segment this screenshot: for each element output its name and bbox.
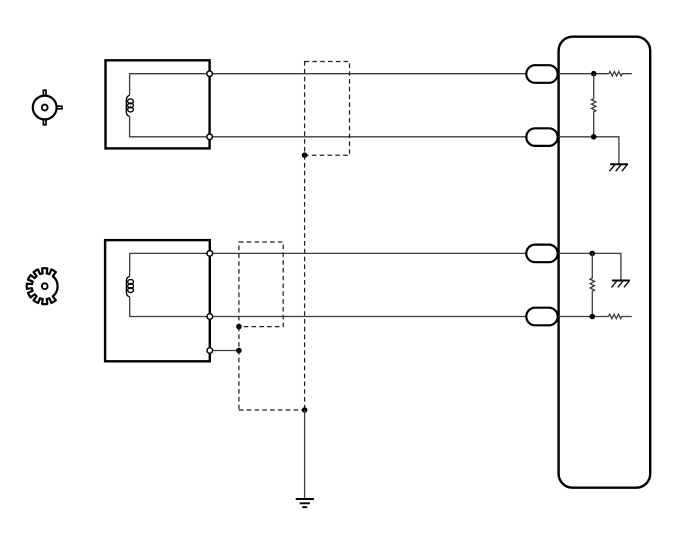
junction: CMP shield drain <box>302 152 308 158</box>
pin: crank sensor terminal 2 <box>207 314 213 320</box>
wire: shield ground lead <box>304 410 306 498</box>
wire: cam coil bottom lead <box>130 117 210 137</box>
wire: ECM internal CKP- <box>559 316 609 318</box>
resistor: CKP series (horizontal) <box>609 314 632 318</box>
chassis ground: CKP channel <box>612 281 630 288</box>
junction: CMP- node <box>591 134 597 140</box>
shield (dashed) around CKP wire pair <box>239 242 283 327</box>
connector terminal: CMP+ <box>526 65 557 83</box>
pin: crank sensor terminal 1 <box>207 251 213 257</box>
wire: crank coil bottom lead <box>130 297 210 317</box>
junction: CMP+ node <box>591 71 597 77</box>
ECM (engine control module) outline <box>559 37 651 488</box>
junction: common shield ground node <box>302 407 308 413</box>
shield drain (dashed) down from CKP shield <box>238 327 240 410</box>
inductor (cam sensor pickup coil) <box>126 95 133 116</box>
connector terminal: CKP- <box>526 308 557 326</box>
resistor: CMP bias (vertical) <box>592 74 596 137</box>
crankshaft position sensor icon (toothed wheel) <box>27 268 58 304</box>
junction: shield pin to drain <box>236 348 242 354</box>
shield drain (dashed) down from CMP shield <box>304 155 306 410</box>
inductor (crank sensor pickup coil) <box>126 276 133 297</box>
pin: cam sensor terminal 1 <box>207 71 213 77</box>
camshaft sensor body box <box>106 60 210 148</box>
wire: ECM internal CMP- to ground <box>559 137 619 164</box>
junction: CKP- node <box>590 314 596 320</box>
wire: crank coil top lead <box>130 253 210 276</box>
crankshaft sensor body box <box>105 240 210 361</box>
shield (dashed) around CMP wire pair <box>305 62 350 156</box>
connector terminal: CKP+ <box>526 245 557 263</box>
wire: CKP signal + (top) <box>210 252 527 254</box>
pin: crank sensor shield terminal <box>207 348 213 354</box>
wire: cam coil top lead <box>130 74 210 96</box>
wire: ECM internal CKP+ to ground <box>559 253 621 279</box>
earth ground symbol <box>296 499 314 507</box>
wire: CMP signal - (bottom) <box>210 136 527 138</box>
wire: CKP signal - (bottom) <box>210 316 527 318</box>
camshaft position sensor icon <box>33 90 62 125</box>
wire: ECM internal CMP+ <box>559 73 609 75</box>
junction: CKP+ node <box>590 251 596 257</box>
resistor: CKP bias (vertical) <box>590 253 594 316</box>
pin: cam sensor terminal 2 <box>207 134 213 140</box>
wire: CMP signal + (top) <box>210 73 527 75</box>
shield drain (dashed) across to common point <box>239 409 305 411</box>
resistor: CMP series (horizontal) <box>609 72 632 76</box>
wire: crank sensor shield pin lead <box>210 350 239 352</box>
connector terminal: CMP- <box>526 128 557 146</box>
chassis ground: CMP channel <box>610 164 628 171</box>
junction: CKP shield drain <box>236 324 242 330</box>
